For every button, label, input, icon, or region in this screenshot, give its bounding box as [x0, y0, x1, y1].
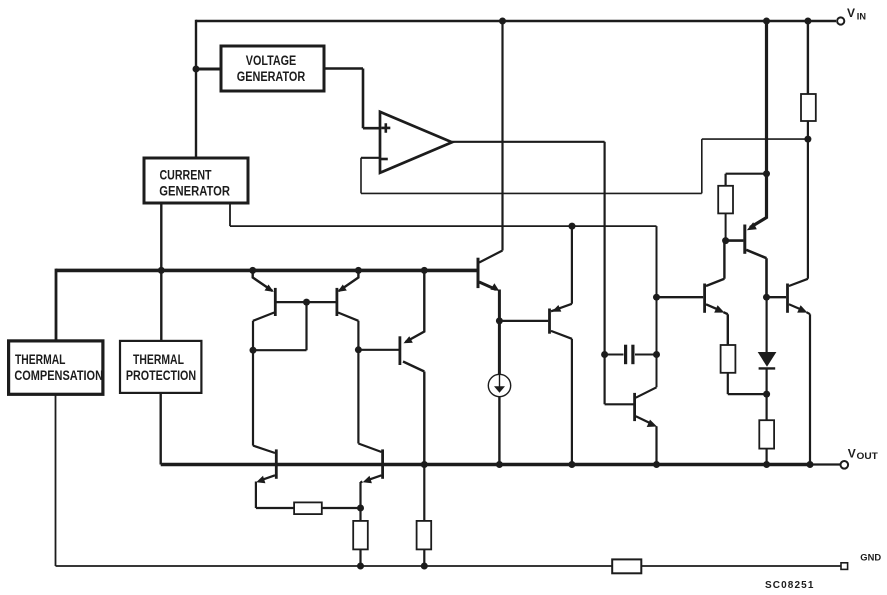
- svg-text:COMPENSATION: COMPENSATION: [14, 368, 103, 383]
- resistor R1 from VIN: [807, 21, 809, 94]
- wire op-amp output down to Q6 base: [605, 355, 634, 405]
- block THERMAL COMPENSATION: [9, 341, 103, 394]
- resistor R5: [417, 521, 432, 550]
- op-amp U1: [380, 112, 452, 173]
- current source I1: [488, 374, 510, 396]
- wire Q4 emitter to current source: [498, 321, 501, 374]
- wire voltage generator to op-amp + input: [324, 69, 381, 129]
- resistor R8: [765, 394, 767, 420]
- wire to voltage generator: [196, 68, 221, 71]
- transistor Q10 pnp-wired left low: [275, 449, 278, 478]
- wire Q3 collector below bus to R5: [423, 465, 425, 567]
- wire current generator left output to bias bus: [160, 203, 162, 270]
- resistor R9 on ground line: [612, 559, 641, 573]
- transistor Q1 pnp left mirror: [274, 288, 277, 316]
- terminal VIN: [837, 17, 844, 24]
- resistor R6: [718, 186, 733, 214]
- node feedback tap under R1: [804, 136, 811, 143]
- svg-text:PROTECTION: PROTECTION: [126, 368, 196, 383]
- wire op-amp output: [452, 142, 605, 355]
- resistor R3: [353, 521, 368, 550]
- wire drop at x656: [656, 226, 658, 387]
- transistor Q7 npn: [703, 284, 706, 313]
- svg-text:SC08251: SC08251: [765, 580, 814, 591]
- svg-text:CURRENT: CURRENT: [160, 168, 213, 183]
- resistor R7: [721, 345, 736, 373]
- svg-text:GND: GND: [860, 552, 881, 563]
- node junction at voltage generator tap: [193, 66, 200, 73]
- block CURRENT GENERATOR: [144, 158, 248, 203]
- svg-text:V: V: [848, 447, 856, 461]
- svg-text:V: V: [847, 6, 855, 20]
- svg-text:VOLTAGE: VOLTAGE: [246, 53, 297, 68]
- wire bias bus left corner down to thermal compensation: [55, 269, 58, 341]
- transistor Q4 npn driver: [477, 258, 480, 288]
- svg-text:THERMAL: THERMAL: [15, 352, 66, 367]
- wire x656 node to Q7 base: [657, 296, 704, 298]
- node bus-T junctions on bias bus: [158, 267, 165, 274]
- terminal GND: [841, 563, 848, 570]
- transistor Q2 pnp right of mirror: [335, 288, 338, 316]
- op-amp plus sign: [381, 123, 390, 132]
- block VOLTAGE GENERATOR: [221, 46, 324, 91]
- svg-text:IN: IN: [857, 12, 866, 23]
- transistor Q3 pnp emitter-up: [398, 336, 401, 365]
- wire GND line: [56, 565, 842, 567]
- capacitor C1: [605, 354, 657, 356]
- wire R6 bottom to Q8 base node: [725, 213, 727, 240]
- wire op-amp inverting feedback: [361, 157, 381, 159]
- wire bias bus to thermal protection: [160, 270, 162, 341]
- wire top VIN bus: [196, 20, 836, 22]
- diode D1: [765, 297, 767, 352]
- svg-text:GENERATOR: GENERATOR: [159, 183, 230, 198]
- transistor Q9 npn output right: [786, 284, 789, 313]
- transistor Q5 pnp: [548, 309, 551, 334]
- wire thermal compensation to ground line: [55, 394, 57, 566]
- svg-text:OUT: OUT: [857, 451, 878, 462]
- transistor Q8 pnp top-right: [743, 225, 746, 254]
- wire Q4 emitter node to Q5 base: [499, 320, 548, 322]
- wire Q2 collector to Q3 base: [358, 349, 398, 351]
- wire Q1 collector down to Q9: [252, 350, 254, 445]
- transistor Q11 low middle: [381, 449, 384, 478]
- svg-text:GENERATOR: GENERATOR: [237, 69, 306, 84]
- wire left drop from top bus to current generator: [195, 20, 197, 158]
- VOUT bus: [161, 463, 810, 467]
- wire R6 top to emitter line: [726, 174, 767, 186]
- resistor R4 horizontal: [294, 502, 322, 514]
- op-amp minus sign: [381, 158, 388, 161]
- node on 226 line at T5 emitter: [569, 223, 576, 230]
- node junctions on VOUT bus: [421, 461, 428, 468]
- wire Q1 collector to base link: [253, 302, 307, 350]
- wire Q2 collector down to Q10: [357, 350, 359, 444]
- wire R7 to diode node: [728, 373, 767, 394]
- terminal VOUT: [841, 461, 849, 469]
- wire thermal protection to output bus: [159, 393, 161, 465]
- bias bus y270: [56, 269, 477, 273]
- wire current generator right output: [230, 203, 657, 226]
- transistor Q6 npn: [633, 393, 636, 421]
- wire current source to VOUT bus: [498, 397, 500, 465]
- block THERMAL PROTECTION: [120, 341, 201, 393]
- svg-text:THERMAL: THERMAL: [133, 352, 184, 367]
